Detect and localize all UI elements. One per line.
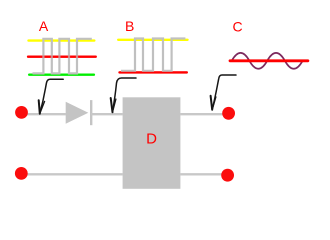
waveform C purple sine wave [232, 53, 303, 69]
wire diode to block D [91, 113, 122, 115]
waveform A red mid level line [28, 56, 96, 58]
waveform B gray square wave [121, 39, 185, 71]
waveform A gray square wave [33, 39, 92, 74]
svg-text:A: A [39, 18, 49, 34]
diode D1 triangle [66, 102, 89, 124]
block D body [123, 97, 181, 189]
waveform A red line overlay blend [28, 56, 96, 58]
svg-text:C: C [232, 19, 242, 35]
pointer arrow from A to anode wire [39, 79, 64, 114]
svg-text:B: B [125, 18, 134, 34]
pointer arrow from B to block input wire [111, 78, 136, 112]
waveform C red zero level line [230, 59, 308, 62]
diode D1 cathode bar [90, 100, 92, 125]
waveform B yellow high level line [118, 39, 187, 41]
terminal dot top-left [15, 106, 28, 119]
wire block D to top-right dot [180, 113, 228, 115]
waveform B red low level line [120, 71, 187, 73]
terminal dot top-right [222, 107, 235, 120]
waveform A yellow high level line [29, 39, 95, 41]
wire top-left to diode [22, 113, 66, 115]
wire block D to bottom-right dot [180, 173, 227, 175]
wire bottom-left to block D [21, 173, 122, 175]
svg-text:D: D [146, 131, 157, 148]
waveform A green low level line [29, 73, 94, 75]
terminal dot bottom-left [15, 167, 28, 180]
terminal dot bottom-right [221, 169, 234, 182]
waveform B red line overlay blend [120, 71, 187, 73]
pointer arrow from C to block output wire [211, 75, 236, 110]
